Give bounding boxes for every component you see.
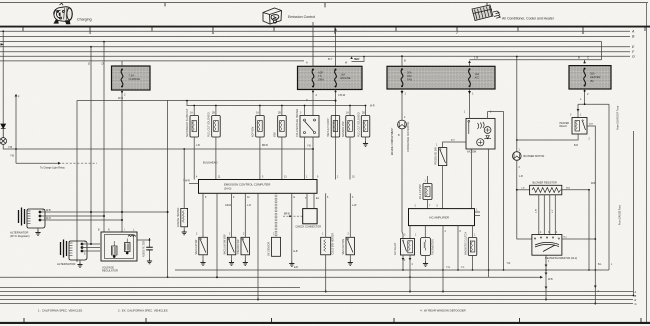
ground D5 bbox=[289, 262, 294, 267]
wire C6 down to ECU bbox=[335, 137, 337, 180]
svg-text:RDI: RDI bbox=[407, 74, 412, 78]
wire check connector pins bbox=[307, 193, 314, 208]
wire blower hot feed from bus G bbox=[516, 57, 518, 152]
relay C5 cold mixture heater relay bbox=[300, 116, 319, 138]
engine heater R-htr bbox=[181, 208, 188, 226]
svg-text:Charging: Charging bbox=[77, 18, 92, 22]
svg-text:RELAY: RELAY bbox=[560, 125, 568, 128]
svg-text:W-R: W-R bbox=[370, 106, 375, 108]
svg-text:2B: 2B bbox=[278, 113, 281, 115]
bottom bus labels bbox=[634, 290, 637, 306]
svg-text:SECONDARY SLOW CUT: SECONDARY SLOW CUT bbox=[186, 108, 189, 137]
wire F2 link1 down bbox=[312, 90, 314, 116]
wire F2 link2 up arrow bbox=[335, 30, 337, 67]
ground D3 bbox=[244, 255, 246, 261]
wire D6 top from ECU bbox=[325, 193, 327, 237]
wire left rail D2 bbox=[90, 47, 92, 244]
svg-text:A: A bbox=[634, 290, 637, 294]
wire engine fuse col down right of ECU bbox=[312, 149, 314, 180]
svg-text:FUEL CUT SOLENOID: FUEL CUT SOLENOID bbox=[208, 112, 211, 137]
wire blower feed lateral bbox=[578, 103, 609, 105]
wire pressure SW top into AC SW bbox=[443, 142, 466, 148]
top border line bbox=[0, 3, 648, 8]
svg-text:VACUUM SW: VACUUM SW bbox=[195, 239, 198, 254]
svg-text:B: B bbox=[635, 294, 637, 298]
vsv C2 fuel cut solenoid bbox=[212, 116, 221, 138]
wire mid horizontal rail bbox=[175, 269, 609, 271]
ox sensor D4 bbox=[272, 237, 281, 256]
svg-text:HEATER: HEATER bbox=[590, 75, 600, 79]
svg-text:HEATER BLOWER SW (24-2): HEATER BLOWER SW (24-2) bbox=[545, 257, 577, 260]
wire D5 ECU ground leg bbox=[291, 193, 293, 261]
svg-text:Y-R: Y-R bbox=[507, 263, 511, 265]
wire A1 S terminal bbox=[40, 215, 104, 217]
svg-text:4 : W/ REAR WINDOW DEFOGGER: 4 : W/ REAR WINDOW DEFOGGER bbox=[420, 309, 466, 313]
svg-text:ADF VSV: ADF VSV bbox=[252, 126, 255, 137]
svg-text:2B: 2B bbox=[362, 113, 365, 115]
wire left feed column bbox=[167, 100, 169, 277]
svg-text:30A: 30A bbox=[407, 71, 412, 75]
svg-text:A: A bbox=[631, 30, 635, 34]
wire switch right side bbox=[562, 238, 595, 240]
wire engine heater top bbox=[183, 149, 185, 208]
node arrow into heater fuse bbox=[583, 61, 586, 64]
svg-text:A/C: A/C bbox=[475, 76, 479, 80]
svg-text:ALTERNATOR: ALTERNATOR bbox=[57, 262, 75, 266]
wire right margin feed bbox=[633, 131, 635, 296]
wire motor M1 to AC relay bbox=[402, 129, 403, 239]
wire lamp to ign fuse rail bbox=[3, 144, 313, 149]
svg-text:10A: 10A bbox=[475, 72, 480, 76]
wire AC SW out right leg bbox=[488, 149, 490, 277]
wire clutch top bbox=[472, 226, 474, 238]
vsv C6 bbox=[331, 116, 340, 138]
svg-text:REGULATOR: REGULATOR bbox=[102, 269, 118, 273]
wire heater relay bottom to motor rail bbox=[517, 134, 578, 140]
svg-text:NOISE FILTER: NOISE FILTER bbox=[142, 241, 145, 257]
svg-text:CHECK CONNECTOR: CHECK CONNECTOR bbox=[296, 226, 322, 229]
wire C2 top bbox=[215, 106, 217, 116]
vsv C8 fuel cut solenoid bbox=[361, 116, 370, 138]
wire D2 top from ECU bbox=[231, 193, 233, 237]
wire C6 engine fuse drop continues bbox=[335, 116, 337, 138]
svg-text:CONDENSER FAN MOTOR: CONDENSER FAN MOTOR bbox=[407, 122, 410, 152]
wire C7 down to ECU bbox=[349, 137, 351, 180]
svg-text:ENGINE COMPARTMENT: ENGINE COMPARTMENT bbox=[391, 127, 394, 155]
svg-text:Emission Control: Emission Control bbox=[288, 15, 315, 19]
svg-text:A/C RELAY: A/C RELAY bbox=[394, 242, 397, 255]
wire C5 down legs bbox=[305, 137, 314, 180]
svg-text:8: 8 bbox=[582, 30, 585, 35]
svg-text:L-B: L-B bbox=[521, 188, 525, 190]
node F3 bottom arrows bbox=[401, 89, 403, 120]
svg-text:L-W: L-W bbox=[352, 204, 357, 207]
svg-text:Y-B: Y-B bbox=[10, 155, 14, 158]
wire C8 top bbox=[365, 106, 367, 116]
motor M1 condenser fan bbox=[398, 120, 407, 129]
vsv idle up bbox=[423, 184, 432, 200]
ground D1 bbox=[202, 255, 204, 261]
wire lower boundary bbox=[0, 276, 489, 278]
amplifier U2 A/C bbox=[409, 209, 475, 226]
svg-text:L-R: L-R bbox=[247, 204, 251, 207]
node lateral junctions bbox=[472, 269, 474, 271]
svg-text:VSV: VSV bbox=[274, 132, 277, 137]
icon Air Conditioner (condenser grille) bbox=[472, 5, 500, 21]
wire F3 link2 up arrow to heater feed bbox=[469, 62, 471, 66]
svg-text:B-Y: B-Y bbox=[328, 57, 333, 61]
svg-text:C: C bbox=[587, 56, 589, 60]
bus labels bbox=[631, 30, 635, 59]
svg-text:THERMISTOR: THERMISTOR bbox=[432, 239, 435, 255]
svg-text:L-Y: L-Y bbox=[552, 209, 554, 213]
wire F3 link1 up to bus G bbox=[401, 56, 403, 66]
bottom bus lines bbox=[0, 288, 633, 304]
svg-text:5: 5 bbox=[212, 30, 215, 35]
wire AC SW bypass to lateral bbox=[488, 112, 504, 270]
fuse box F1 7.5A CHARGE bbox=[112, 66, 151, 90]
svg-text:BR-B: BR-B bbox=[284, 213, 290, 216]
svg-text:ADF: ADF bbox=[318, 71, 324, 75]
wire amp bottom long to rail bbox=[442, 226, 444, 292]
resistor blower bbox=[530, 185, 563, 195]
ground alternator A2 bbox=[79, 261, 81, 263]
wire A1 L terminal bbox=[40, 219, 122, 221]
main top ruler bbox=[0, 27, 650, 31]
svg-text:P-Y: P-Y bbox=[451, 140, 455, 142]
svg-text:B: B bbox=[404, 59, 406, 63]
wire A2 N terminal bbox=[82, 243, 100, 245]
wire F2 link2 down bbox=[335, 90, 337, 116]
wire lamp rail from bus A bbox=[2, 31, 4, 123]
heater D6 cold start inj heater bbox=[321, 237, 331, 255]
bus F bbox=[0, 51, 630, 53]
svg-text:B-R: B-R bbox=[574, 145, 578, 147]
wire heater relay right to long drop bbox=[587, 126, 595, 304]
wire D6 bottom to bus bbox=[325, 255, 327, 292]
wire regulator to filter bbox=[137, 238, 150, 240]
wire D7 top from ECU bbox=[349, 193, 351, 237]
wire heater feed from bus C bbox=[470, 60, 602, 64]
svg-text:A/C AMPLIFIER: A/C AMPLIFIER bbox=[429, 216, 449, 220]
bus E bbox=[0, 46, 630, 48]
wire C2 down to ECU bbox=[215, 137, 217, 180]
svg-text:1A: 1A bbox=[346, 112, 349, 115]
alternator A1 (w/ IC regulator) bbox=[19, 208, 46, 229]
svg-text:FUEL CUT SOLENOID: FUEL CUT SOLENOID bbox=[357, 112, 360, 137]
ECU emission control computer bbox=[199, 180, 318, 194]
svg-text:E: E bbox=[635, 298, 637, 302]
svg-text:7.5A: 7.5A bbox=[129, 74, 135, 78]
svg-text:(B): (B) bbox=[590, 79, 594, 83]
svg-text:1A: 1A bbox=[190, 112, 193, 115]
svg-text:A/C SW: A/C SW bbox=[467, 149, 477, 153]
column numbers 4 5 6 7 8 bbox=[89, 30, 585, 35]
wire ECU left pin bbox=[189, 183, 199, 185]
wire D3 top from ECU bbox=[244, 193, 246, 237]
wire blower motor down to switch bbox=[517, 160, 532, 239]
svg-text:4 B-W: 4 B-W bbox=[338, 93, 346, 97]
svg-text:EMISSION CONTROL COMPUTER: EMISSION CONTROL COMPUTER bbox=[224, 182, 270, 186]
relay K1 A/C bbox=[401, 239, 415, 256]
svg-text:1A: 1A bbox=[256, 112, 259, 115]
svg-text:D: D bbox=[88, 62, 90, 66]
bus G bbox=[0, 55, 630, 57]
wire pressure SW to amplifier bbox=[442, 166, 444, 209]
svg-text:Y-B: Y-B bbox=[8, 145, 12, 149]
wire ignition feed rail bbox=[77, 101, 336, 262]
ground D2 bbox=[231, 255, 233, 261]
svg-text:Y-B: Y-B bbox=[307, 146, 311, 148]
svg-text:CHARGE: CHARGE bbox=[129, 77, 141, 81]
wire arrow stub lower right bbox=[489, 276, 540, 278]
wire amp bottom to thermistor bbox=[424, 226, 426, 238]
wire ECU earth drop to bus bbox=[257, 193, 259, 299]
wire amp bottom to relay coil bbox=[409, 226, 411, 239]
svg-text:A: A bbox=[306, 61, 308, 65]
svg-text:E-B: E-B bbox=[294, 250, 298, 253]
svg-text:VACUUM VSV: VACUUM VSV bbox=[342, 238, 345, 254]
wire idle up vsv to amplifier bbox=[427, 200, 429, 209]
wire amp bottom 2 to rail bbox=[457, 226, 459, 270]
svg-text:VACUUM SW VSV: VACUUM SW VSV bbox=[224, 234, 227, 255]
wire AC SW out left leg bbox=[471, 149, 473, 209]
wire F4 down bbox=[584, 89, 586, 104]
bottom ruler bbox=[0, 318, 650, 323]
wire C7 top bbox=[349, 106, 351, 116]
svg-text:PRESSURE SW: PRESSURE SW bbox=[435, 147, 438, 165]
svg-text:To Charge Light Relay: To Charge Light Relay bbox=[40, 167, 65, 170]
emission top rail bbox=[187, 101, 366, 106]
svg-text:THERMO SW: THERMO SW bbox=[237, 239, 240, 255]
lamp charge warning bbox=[0, 138, 7, 145]
fuse box F3 AM2 / A-C bbox=[387, 66, 495, 89]
pressure SW S2 bbox=[438, 148, 446, 166]
ground D7 bbox=[349, 255, 351, 261]
vsv D2 bbox=[227, 237, 236, 255]
svg-text:MAGNETIC CLUTCH: MAGNETIC CLUTCH bbox=[465, 232, 468, 255]
svg-text:BR-B: BR-B bbox=[262, 144, 268, 147]
vsv D1 bbox=[199, 237, 208, 255]
bus lines A-G bbox=[0, 31, 630, 61]
svg-text:Air Conditioner, Cooler and He: Air Conditioner, Cooler and Heater bbox=[502, 17, 555, 21]
svg-text:G: G bbox=[635, 302, 637, 306]
wire switch bottom drop bbox=[545, 255, 547, 299]
svg-text:COLD MIXTURE HEATER: COLD MIXTURE HEATER bbox=[296, 108, 299, 137]
svg-text:7: 7 bbox=[456, 30, 459, 35]
wire A1 B terminal bbox=[40, 211, 168, 213]
bus B bbox=[0, 35, 630, 37]
svg-text:E-B: E-B bbox=[294, 267, 298, 269]
svg-text:BLOWER RESISTOR: BLOWER RESISTOR bbox=[533, 181, 557, 184]
svg-text:IDLE UP VSV: IDLE UP VSV bbox=[419, 184, 422, 199]
svg-text:FAN: FAN bbox=[407, 78, 412, 82]
vsv D7 bbox=[346, 237, 355, 255]
svg-text:Y-G: Y-G bbox=[446, 267, 450, 269]
wire stub engine feed bbox=[352, 57, 365, 62]
wire idle up vsv top bbox=[427, 176, 429, 184]
svg-text:B: B bbox=[578, 56, 580, 60]
vsv C3 bbox=[256, 116, 265, 138]
vsv C4 bbox=[278, 116, 287, 138]
wire A2 F terminal bbox=[82, 247, 100, 249]
svg-text:GMA: GMA bbox=[318, 78, 324, 82]
wire C4 top bbox=[281, 106, 283, 116]
svg-text:HIGH ALT COMP: HIGH ALT COMP bbox=[327, 118, 330, 137]
wire F1 down bbox=[121, 90, 123, 232]
svg-text:OX SENSOR: OX SENSOR bbox=[268, 242, 271, 256]
wire ECU ground drop bbox=[216, 193, 218, 277]
wire F2 link1 up through ruler bbox=[312, 22, 314, 66]
svg-text:1 B: 1 B bbox=[474, 56, 478, 60]
wire pin labels speckle bbox=[42, 59, 613, 269]
ground noise filter bbox=[147, 259, 152, 264]
svg-text:W-B: W-B bbox=[118, 96, 123, 100]
diode charge indicator bbox=[1, 124, 6, 138]
svg-text:ENGINE: ENGINE bbox=[341, 76, 351, 80]
icon Charging (alternator pictogram) bbox=[54, 3, 72, 24]
relay K2 heater bbox=[572, 118, 587, 135]
wire C5 left pin to rail bbox=[304, 106, 306, 116]
vsv C1 secondary slow cut bbox=[190, 116, 199, 138]
svg-text:1 : CALIFORNIA SPEC. VEHICLES: 1 : CALIFORNIA SPEC. VEHICLES bbox=[38, 309, 82, 313]
svg-text:4: 4 bbox=[89, 30, 92, 35]
svg-text:7.5: 7.5 bbox=[318, 74, 322, 78]
svg-text:2 : EX. CALIFORNIA SPEC. VEHIC: 2 : EX. CALIFORNIA SPEC. VEHICLES bbox=[118, 309, 168, 313]
svg-text:From GAUGE Fuse: From GAUGE Fuse bbox=[619, 204, 622, 225]
svg-text:SENSOR VSV: SENSOR VSV bbox=[342, 121, 345, 137]
wire branch into resistor bbox=[517, 189, 530, 191]
right page border bbox=[646, 3, 648, 324]
svg-text:ENGINE HEATER: ENGINE HEATER bbox=[177, 207, 180, 227]
svg-text:BLOWER MOTOR: BLOWER MOTOR bbox=[524, 155, 545, 158]
svg-text:From SUNROOF Fuse: From SUNROOF Fuse bbox=[617, 105, 620, 130]
wire lower feed line bbox=[0, 60, 304, 62]
fuse box F2 IGN / ENGINE bbox=[298, 66, 363, 89]
wire C1 down to ECU bbox=[193, 137, 195, 180]
bus A bbox=[0, 30, 630, 32]
vsv magnetic clutch bbox=[468, 238, 477, 256]
vsv D3 bbox=[241, 237, 250, 255]
wire amp pin1 stub bbox=[475, 215, 481, 217]
svg-text:15A: 15A bbox=[341, 73, 346, 77]
node F1 bottom junction bbox=[121, 91, 123, 93]
ground alternator A1 bbox=[37, 229, 39, 231]
motor M2 blower bbox=[513, 152, 522, 161]
footnotes bbox=[38, 309, 466, 313]
bus C bbox=[0, 42, 602, 60]
svg-text:W-B: W-B bbox=[548, 278, 553, 281]
wire resistor right tap bbox=[562, 190, 589, 270]
wire F1 top to feed line bbox=[121, 61, 123, 66]
svg-text:7 W-B: 7 W-B bbox=[44, 209, 51, 212]
wire C3 down to ECU bbox=[259, 137, 261, 180]
alternator A2 bbox=[61, 240, 88, 261]
capacitor noise filter bbox=[146, 238, 153, 259]
check connector bbox=[303, 209, 317, 224]
wire A2 E terminal bbox=[82, 250, 100, 252]
ground C8 bbox=[365, 137, 367, 142]
wire into heater relay with arrow bbox=[577, 104, 579, 117]
svg-text:(W/ IC Regulator): (W/ IC Regulator) bbox=[10, 235, 30, 238]
svg-text:30A: 30A bbox=[590, 72, 595, 76]
wire dashed to charge relay bbox=[15, 96, 17, 164]
node AC relay bottom arrows bbox=[402, 255, 404, 270]
svg-text:3 W-R: 3 W-R bbox=[44, 217, 51, 220]
svg-text:(24-D): (24-D) bbox=[224, 187, 231, 191]
svg-text:B-R: B-R bbox=[589, 124, 593, 126]
svg-text:COLD MIX HEATER: COLD MIX HEATER bbox=[332, 232, 335, 254]
voltage regulator U1 bbox=[101, 232, 137, 261]
switch heater blower bbox=[532, 235, 562, 256]
wire clutch bottom to lateral bbox=[472, 256, 474, 271]
icon Emission Control (canister cube) bbox=[263, 8, 282, 24]
ground engine heater bbox=[183, 227, 185, 230]
wire right feed drop bbox=[608, 104, 610, 270]
switch A/C SW assembly bbox=[466, 118, 495, 149]
svg-text:M-B: M-B bbox=[591, 183, 596, 185]
node F2 bottoms bbox=[312, 91, 314, 93]
node left edge arrow bbox=[1, 43, 5, 45]
svg-text:L-B: L-B bbox=[196, 144, 200, 147]
wire resistor bottom taps bbox=[539, 195, 556, 235]
fuse box F4 30A HEATER bbox=[569, 66, 611, 89]
wire C4 down to ECU bbox=[281, 137, 283, 180]
svg-text:L-B: L-B bbox=[519, 175, 523, 178]
wire dash link to check connector bbox=[283, 215, 303, 217]
svg-text:D: D bbox=[102, 62, 104, 66]
svg-text:2B: 2B bbox=[212, 113, 215, 115]
svg-text:BULKHEAD: BULKHEAD bbox=[203, 161, 218, 165]
thermistor RT1 bbox=[421, 238, 431, 256]
svg-text:G: G bbox=[632, 55, 635, 59]
wire D1 top from ECU bbox=[202, 193, 204, 237]
svg-text:ALTERNATOR: ALTERNATOR bbox=[10, 231, 28, 235]
ground thermistor bbox=[425, 256, 427, 262]
svg-text:GR-R: GR-R bbox=[225, 204, 231, 207]
wire amp pin right stub bbox=[475, 211, 481, 213]
wire C1 top bbox=[193, 106, 195, 116]
svg-text:M-B: M-B bbox=[566, 188, 571, 190]
wire left rail D1 bbox=[103, 42, 105, 232]
multiwire ladder below ECU bbox=[275, 193, 277, 237]
vsv C7 bbox=[346, 116, 355, 138]
wire C3 top bbox=[259, 106, 261, 116]
